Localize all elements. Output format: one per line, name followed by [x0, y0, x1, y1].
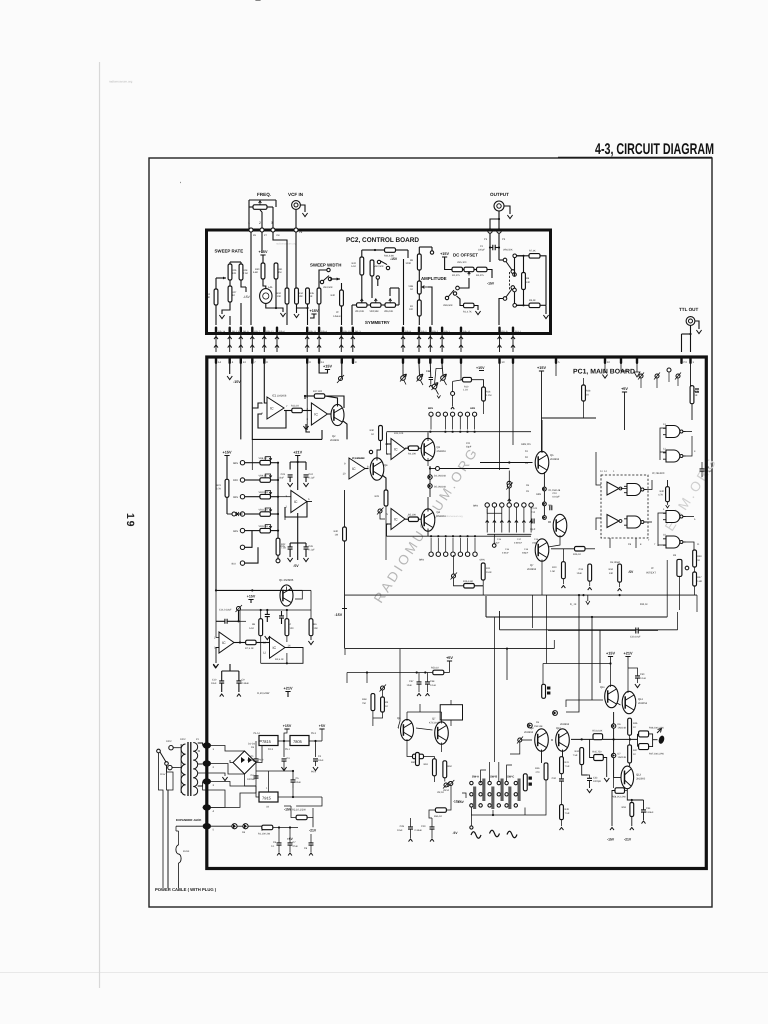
bus wire x240.8: [239, 334, 243, 352]
svg-text:R16,3.3K: R16,3.3K: [463, 580, 473, 583]
svg-text:GRN: GRN: [536, 493, 541, 496]
cap C5 ps: [291, 770, 302, 788]
svg-text:1K: 1K: [385, 705, 388, 708]
svg-text:2.7K: 2.7K: [216, 488, 221, 491]
svg-text:SW-B: SW-B: [490, 776, 497, 779]
resistor R8 240: [522, 273, 531, 290]
connector pin PB-14 on PC2: [215, 327, 226, 334]
wire r38: [691, 364, 700, 420]
resistor R7 ic2: [245, 640, 256, 650]
dashed line switch: [509, 272, 511, 291]
svg-text:750: 750: [362, 702, 367, 705]
resistor drv v1: [424, 759, 437, 776]
connector pin PB-9 on PC2: [402, 327, 412, 334]
svg-text:OUTPUT: OUTPUT: [490, 192, 509, 197]
cap C10 q6: [550, 492, 560, 510]
pad 509 tap: [506, 471, 513, 503]
resistor R31 ic7: [408, 446, 418, 456]
label -15V drv: [453, 800, 461, 804]
resistor R38 top: [690, 386, 699, 404]
wire q7 link: [548, 522, 560, 547]
svg-text:1000uF: 1000uF: [247, 778, 256, 781]
wire mid rail2: [542, 417, 597, 419]
resistor R34 int: [609, 564, 622, 591]
svg-text:R48,100,1/2W: R48,100,1/2W: [649, 727, 665, 730]
svg-text:0.33uF: 0.33uF: [646, 811, 654, 814]
svg-text:+15V: +15V: [223, 451, 232, 455]
resistor R10 int: [550, 562, 565, 579]
wire ic box: [450, 700, 452, 726]
svg-text:1K: 1K: [371, 433, 374, 436]
pot VR8,1K row: [233, 457, 279, 465]
wire vert 613: [613, 712, 615, 770]
pad P1: [484, 229, 492, 241]
svg-text:100pF: 100pF: [478, 249, 485, 252]
svg-text:R59: R59: [622, 806, 627, 809]
wire r8 z links: [261, 610, 287, 663]
svg-text:+21V: +21V: [293, 451, 302, 455]
output terminal: [657, 729, 665, 745]
svg-text:240: 240: [526, 281, 531, 284]
svg-text:10uF: 10uF: [397, 829, 403, 832]
svg-text:radiomuseum.org: radiomuseum.org: [109, 80, 133, 84]
svg-text:D5,1N4148: D5,1N4148: [434, 486, 446, 489]
wire pc2 out verts: [490, 233, 499, 262]
svg-text:R1,4.7K: R1,4.7K: [463, 311, 472, 314]
connector pin 7 on PC1 top: [251, 356, 256, 364]
connector pin PU-8 on PC2: [498, 327, 508, 334]
svg-text:R2,10,1/2W: R2,10,1/2W: [292, 809, 306, 812]
wire symm topleft: [362, 250, 375, 257]
label q7 caps: [530, 507, 538, 531]
svg-text:1K: 1K: [310, 295, 313, 298]
resistor R38 sweep w: [317, 288, 321, 304]
svg-text:radiomuseum.org: radiomuseum.org: [276, 243, 297, 246]
svg-text:1K: 1K: [697, 559, 700, 562]
resistor bm left v: [416, 753, 420, 766]
wire bm left drop: [347, 673, 367, 684]
resistor R59 out: [622, 803, 634, 817]
connector pin 11 on PC1 top: [318, 356, 324, 364]
wire ic3 neg rail: [290, 513, 306, 568]
svg-text:1N4148: 1N4148: [534, 725, 543, 728]
pad 452 tap: [451, 380, 463, 410]
lamp LA1: [260, 279, 274, 303]
cap under pin 430: [426, 364, 433, 387]
transistor Q6: [535, 451, 559, 473]
svg-text:R4,475: R4,475: [476, 274, 484, 277]
svg-text:4-3, CIRCUIT DIAGRAM: 4-3, CIRCUIT DIAGRAM: [595, 141, 714, 158]
svg-text:-5V: -5V: [628, 570, 634, 574]
resistor R58 dc: [463, 303, 474, 313]
connector pin 10 on PC1 top: [498, 356, 505, 364]
pads P6 P7 P8 row: [249, 228, 298, 237]
pad row 2 mid: [419, 538, 485, 562]
resistor R13 ic1: [291, 405, 302, 413]
wire q10 down: [525, 780, 546, 815]
connector pin x637 on PC1 top: [636, 356, 638, 364]
connector pin PB-15 on PC2: [460, 327, 471, 334]
svg-text:P4-3: P4-3: [268, 748, 274, 751]
svg-text:-5V: -5V: [293, 564, 299, 568]
svg-text:IC: IC: [273, 646, 277, 650]
svg-text:FREQ.: FREQ.: [257, 192, 271, 197]
cap C10: [211, 671, 224, 697]
svg-text:VR10,1K: VR10,1K: [259, 491, 269, 494]
resistor bm v2: [381, 697, 389, 712]
label Q1: [279, 578, 294, 582]
svg-text:+15V: +15V: [323, 365, 332, 369]
svg-text:+15V: +15V: [440, 252, 449, 256]
svg-text:100: 100: [409, 308, 414, 311]
label IC INTEXT: [646, 567, 656, 575]
svg-text:R2,475: R2,475: [452, 274, 460, 277]
svg-text:BRN: BRN: [419, 559, 424, 562]
title 4-3 CIRCUIT DIAGRAM: [595, 141, 714, 158]
svg-text:33pF: 33pF: [466, 445, 472, 448]
svg-text:2N3904: 2N3904: [527, 568, 537, 571]
svg-text:C28: C28: [400, 825, 405, 828]
svg-text:D4,1N4148: D4,1N4148: [434, 475, 446, 478]
transistor Q3: [370, 458, 388, 480]
svg-text:100V: 100V: [166, 740, 172, 743]
cap C23: [279, 473, 293, 487]
svg-text:PB-4: PB-4: [321, 331, 327, 334]
wire q6: [480, 420, 544, 516]
svg-text:1K: 1K: [586, 394, 589, 397]
SWEEP WIDTH label: [310, 263, 341, 268]
wire sweep arrow: [216, 277, 226, 289]
bus wire x430.3: [428, 334, 432, 352]
svg-text:1M: 1M: [335, 534, 338, 537]
resistor R8 vert: [249, 619, 263, 636]
switch out upper: [499, 258, 512, 270]
PC2 board label: [346, 237, 419, 244]
wire TTL jack: [682, 321, 702, 352]
power +15V dcoff: [440, 252, 449, 257]
svg-text:P1: P1: [484, 238, 488, 241]
wire amp top: [419, 247, 433, 254]
svg-text:R39: R39: [697, 555, 702, 558]
TTL OUT label: [679, 307, 699, 312]
power +21V low: [284, 687, 293, 697]
svg-text:7815: 7815: [262, 739, 272, 744]
label VR6 50K right: [503, 249, 513, 252]
resistor R16 top: [482, 387, 492, 401]
svg-text:1.5K: 1.5K: [550, 570, 555, 573]
page outer frame: [149, 158, 712, 907]
svg-text:R47,100,1/2W: R47,100,1/2W: [649, 753, 665, 756]
transistor Q7: [547, 486, 567, 537]
svg-text:19: 19: [124, 513, 136, 528]
pad symm: [376, 276, 379, 286]
wire dc wiper: [456, 278, 469, 290]
svg-text:LA1: LA1: [268, 286, 273, 289]
connector pin x430.3 on PC1 top: [429, 356, 431, 364]
resistor R43 symm: [370, 260, 384, 276]
svg-text:R9,4K: R9,4K: [529, 299, 536, 302]
wire pc2 vert 262: [261, 232, 263, 253]
wire pad rows rail: [487, 534, 531, 547]
svg-text:BRN: BRN: [428, 407, 433, 410]
cap C25: [281, 543, 293, 562]
svg-text:BRN: BRN: [473, 505, 478, 508]
svg-text:IC: IC: [270, 406, 274, 410]
opamp IC6: [387, 509, 409, 530]
transformer T1 secondary: [193, 743, 197, 796]
wire ic2 in: [213, 590, 219, 667]
wire q3 emit: [382, 475, 386, 490]
resistor R40 1M left: [334, 527, 347, 541]
svg-text:1: 1: [248, 221, 250, 225]
resistor R36 452: [0, 0, 1, 1]
wire OUTPUT jack: [490, 206, 513, 229]
svg-text:R48: R48: [362, 698, 367, 701]
wire ic1 to ic2: [284, 410, 311, 412]
pad P2: [497, 229, 506, 241]
connector pin 13 on PC1 top: [240, 356, 247, 364]
wire r8 links: [515, 256, 524, 305]
power +15V mid2: [255, 0, 260, 1]
label -5V int: [628, 566, 634, 574]
resistor R56 dc3: [476, 267, 487, 277]
connector pin PB-2 on PC2: [429, 327, 439, 334]
wire pc2 vert 296: [295, 232, 297, 288]
transistor Q11: [600, 685, 618, 707]
svg-text:R58,1K,1/2W: R58,1K,1/2W: [612, 796, 626, 799]
jack OUTPUT: [494, 201, 504, 211]
svg-text:1.1K: 1.1K: [463, 389, 468, 392]
cap mid2: [279, 611, 284, 624]
resistor R6 10k: [309, 619, 318, 636]
svg-text:-15V: -15V: [243, 295, 251, 299]
nand gate G6: [663, 448, 686, 463]
wire q5 up: [427, 432, 429, 441]
wire rail 595 drops: [532, 595, 697, 612]
svg-text:-21V: -21V: [309, 829, 317, 833]
resistor R50 q9: [535, 763, 548, 780]
svg-text:115V: 115V: [160, 773, 166, 776]
resistor R52 amp: [409, 300, 421, 316]
wire vert494 drop: [493, 700, 495, 762]
cap C7 ps: [288, 828, 299, 856]
switch out lower: [499, 289, 512, 325]
bus wire x513: [511, 334, 515, 352]
cap C out: [628, 668, 647, 688]
svg-text:C14,0.33uF: C14,0.33uF: [219, 609, 232, 612]
cap C8 ps: [304, 834, 314, 856]
svg-text:Q3: Q3: [437, 446, 441, 449]
wire q1 c: [287, 587, 312, 600]
svg-text:SW-C: SW-C: [507, 776, 514, 779]
resistor R9 4k: [529, 299, 540, 308]
svg-text:-15V: -15V: [453, 800, 461, 804]
svg-text:VR11,1K: VR11,1K: [259, 509, 269, 512]
resistor R30 pc2: [253, 263, 265, 279]
connector pin 14 on PC1 top: [215, 356, 222, 364]
cap C38 bm: [425, 673, 437, 697]
label 100V: [160, 740, 172, 776]
wire vr bus: [277, 463, 279, 539]
resistor R50 amp: [405, 254, 421, 270]
regulator IC 7815: [254, 732, 279, 751]
svg-text:VR6,10K: VR6,10K: [384, 310, 394, 313]
label VR5 100: [457, 261, 467, 264]
svg-text:7.5K: 7.5K: [573, 754, 578, 757]
svg-text:1000uF: 1000uF: [247, 759, 256, 762]
title underline: [558, 157, 712, 159]
svg-text:R45,750: R45,750: [592, 751, 602, 754]
svg-text:6.8K: 6.8K: [253, 271, 258, 274]
resistor R16 mid: [463, 580, 474, 588]
wire r43: [583, 378, 585, 418]
pad switch mid4: [513, 288, 517, 292]
resistor R40 47k: [658, 480, 669, 508]
wire rail 648: [345, 640, 554, 655]
svg-text:GRN: GRN: [470, 407, 475, 410]
pot trim top: [337, 364, 344, 383]
pot VR9,1K row: [233, 474, 279, 482]
svg-text:1458-8: 1458-8: [333, 315, 341, 318]
resistor R32 pc2: [277, 288, 289, 304]
node 2: [259, 210, 264, 232]
transistor Q1: [280, 585, 293, 606]
wire out low net: [610, 789, 644, 830]
nand gate G8: [663, 534, 686, 549]
svg-text:470pF: 470pF: [705, 470, 712, 473]
connector pin P3 on PC1 top: [680, 356, 687, 364]
svg-text:SWEEP RATE: SWEEP RATE: [215, 249, 244, 254]
svg-text:P4-2: P4-2: [259, 759, 265, 762]
svg-text:D1,1N4148: D1,1N4148: [549, 489, 561, 492]
svg-text:Q13: Q13: [636, 774, 641, 777]
wire logic links: [596, 452, 652, 530]
svg-text:+15V: +15V: [283, 724, 292, 728]
label -21V out: [624, 838, 632, 842]
wire 7915 in: [256, 785, 322, 798]
svg-text:VCF IN: VCF IN: [288, 192, 304, 197]
scan edge line left: [99, 62, 101, 988]
svg-text:radiomuseum.org: radiomuseum.org: [444, 515, 463, 518]
svg-text:R1,100,1W: R1,100,1W: [258, 833, 271, 836]
svg-text:4.7K: 4.7K: [658, 494, 663, 497]
svg-text:2N3904: 2N3904: [437, 450, 447, 453]
resistor R26 int: [573, 547, 585, 556]
power +21V out: [624, 652, 633, 668]
wire bridge bot: [245, 774, 257, 793]
PC1 board label: [573, 369, 635, 376]
svg-text:VR9,1K: VR9,1K: [259, 475, 268, 478]
svg-text:R7,4K: R7,4K: [529, 250, 536, 253]
pot q1 bias: [219, 605, 242, 612]
svg-text:151K: 151K: [486, 571, 492, 574]
watermark diagonal right: [662, 453, 721, 533]
svg-text:PU-1: PU-1: [515, 331, 521, 334]
wire rail 432: [387, 431, 532, 433]
bus wire x319.1: [317, 334, 321, 352]
resistor R54 out: [592, 730, 602, 740]
svg-text:100K: 100K: [405, 262, 411, 265]
wire sweep gnd: [219, 302, 230, 319]
label T1: [180, 738, 200, 741]
switch SW1-A: [470, 776, 486, 810]
wire exp jack net: [211, 793, 256, 807]
svg-text:PB-5: PB-5: [421, 331, 427, 334]
transistor Q9 out: [524, 727, 548, 751]
wire ttl resistor: [0, 0, 1, 1]
resistor R7 4k: [529, 250, 540, 259]
resistor R48 coupling: [639, 727, 665, 737]
transistor Q8 drv: [429, 718, 448, 745]
svg-text:C12: C12: [531, 511, 536, 514]
svg-text:7915: 7915: [262, 796, 272, 801]
wire expander pin: [176, 826, 203, 831]
pot VR11,1K row: [234, 508, 279, 516]
connector pin 4 on PC1 top: [229, 356, 234, 364]
cap C33 out: [587, 775, 602, 793]
transistor Q9 small box: [673, 554, 689, 576]
svg-text:VR5,100: VR5,100: [457, 261, 467, 264]
wire r49: [560, 786, 564, 830]
svg-text:1N4148: 1N4148: [618, 726, 627, 729]
wire logic out rail: [548, 630, 658, 632]
connector pin PB-1 on PC2: [441, 327, 451, 334]
scan bottom shade: [0, 972, 768, 973]
cap C37 bm: [407, 673, 422, 697]
cap C24: [303, 473, 315, 487]
connector pin PB-8 on PC2: [240, 327, 250, 334]
switch S1 sweep: [320, 276, 340, 289]
wire xfmr mid tap: [198, 773, 228, 781]
svg-text:+21V: +21V: [624, 652, 633, 656]
svg-text:Q1 2N3906: Q1 2N3906: [279, 578, 294, 582]
resistor R24 sweep: [206, 289, 218, 305]
wire symm top: [374, 249, 408, 258]
wire bm verticals: [532, 605, 546, 664]
wire pc2 vert 251: [250, 232, 252, 325]
bus wire x403: [401, 334, 405, 352]
svg-text:R44: R44: [575, 750, 580, 753]
resistor sw right: [523, 774, 532, 791]
wire reg chain: [259, 740, 322, 757]
svg-text:430: 430: [609, 572, 614, 575]
wire ic3 fb: [284, 517, 286, 520]
label IC5: [352, 457, 365, 460]
wire top rails: [461, 364, 556, 470]
svg-text:DC OFFSET: DC OFFSET: [453, 253, 478, 258]
svg-text:0.33uF: 0.33uF: [415, 829, 423, 832]
power +15V ps: [283, 724, 292, 741]
svg-text:PB-8: PB-8: [243, 331, 249, 334]
resistor R44 out: [573, 748, 584, 765]
svg-text:R49: R49: [565, 808, 570, 811]
wire pot mid: [454, 555, 464, 586]
wire FREQ pot frame: [249, 200, 276, 230]
PC2 board outline: [207, 230, 551, 334]
resistor R30 q3: [370, 426, 383, 441]
wire sweep mid: [230, 280, 251, 299]
wire dc sw: [457, 296, 481, 315]
svg-text:PB-13: PB-13: [232, 331, 240, 334]
wire q13 base: [614, 770, 621, 788]
wire sweepw pin: [318, 304, 320, 325]
wire r10: [561, 549, 565, 588]
wire q4 coll: [427, 497, 429, 512]
resistor R44 top: [384, 248, 396, 258]
pad out mid1: [511, 270, 515, 274]
wire ic2 out: [234, 610, 246, 644]
assorted tiny labels pc1: [352, 432, 650, 606]
